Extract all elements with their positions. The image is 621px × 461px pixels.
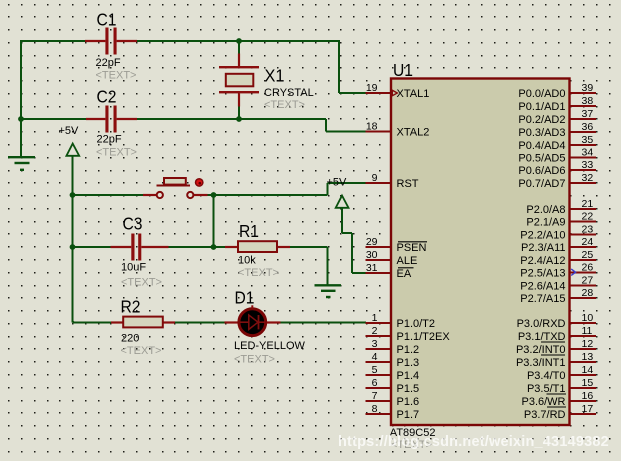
svg-text:R2: R2 (121, 297, 141, 317)
svg-text:P2.6/A14: P2.6/A14 (520, 281, 565, 293)
svg-text:ALE: ALE (397, 255, 418, 267)
svg-text:220: 220 (121, 333, 139, 345)
svg-text:25: 25 (582, 249, 594, 261)
svg-text:<TEXT>: <TEXT> (96, 70, 137, 82)
svg-text:4: 4 (372, 351, 378, 363)
svg-text:26: 26 (582, 262, 594, 274)
wire top rail C1 row left segment (20, 40, 22, 42)
svg-text:35: 35 (582, 134, 594, 146)
svg-text:P0.1/AD1: P0.1/AD1 (518, 101, 565, 113)
svg-text:P2.3/A11: P2.3/A11 (521, 242, 565, 254)
svg-text:R1: R1 (239, 221, 259, 241)
pin 28 P2.7/A15 (520, 287, 596, 305)
wire R1 to ground corner (290, 246, 328, 248)
pin 33 P0.6/AD6 (518, 159, 596, 177)
svg-text:28: 28 (582, 287, 594, 299)
pin 31 EA (366, 262, 414, 280)
svg-text:9: 9 (372, 172, 378, 184)
svg-text:21: 21 (582, 198, 594, 210)
svg-text:12: 12 (582, 338, 594, 350)
svg-text:30: 30 (366, 249, 378, 261)
wire down to XTAL1 (338, 41, 340, 93)
svg-text:P1.5: P1.5 (397, 383, 420, 395)
svg-text:3: 3 (372, 338, 378, 350)
wire ground stem top-left (20, 119, 22, 157)
pin 16 P3.6/WR (521, 390, 596, 408)
wire into RST pin (328, 182, 367, 184)
ground (under R1) (315, 285, 342, 297)
wire +5V rail vertical (72, 156, 74, 323)
pin 19 XTAL1 (366, 82, 430, 100)
svg-text:38: 38 (582, 95, 594, 107)
svg-text:22pF: 22pF (97, 134, 122, 146)
svg-text:<TEXT>: <TEXT> (121, 345, 162, 357)
LED D1 LED-YELLOW (225, 288, 306, 366)
node B junction dot (18, 116, 24, 122)
resistor R2 220 (111, 297, 175, 358)
svg-text:6: 6 (372, 377, 378, 389)
svg-text:10uF: 10uF (121, 262, 146, 274)
pin 30 ALE (366, 249, 418, 267)
svg-text:C3: C3 (123, 214, 143, 234)
svg-text:P2.5/A13: P2.5/A13 (520, 268, 565, 280)
svg-text:36: 36 (582, 121, 594, 133)
svg-text:XTAL1: XTAL1 (397, 88, 430, 100)
wire C3 to R1 node (163, 246, 226, 248)
wire into XTAL2 pin (326, 131, 366, 133)
svg-text:<TEXT>: <TEXT> (264, 99, 305, 111)
node E RST-node junction dot (211, 192, 217, 198)
+5V power symbol (EA pin) (327, 177, 367, 274)
wire crystal top stub (238, 41, 240, 54)
svg-text:14: 14 (582, 364, 594, 376)
svg-text:P3.7/RD: P3.7/RD (524, 409, 566, 421)
pin 15 P3.5/T1 (527, 377, 596, 395)
node A junction dot (236, 38, 242, 44)
svg-text:P0.6/AD6: P0.6/AD6 (518, 165, 565, 177)
svg-text:P1.4: P1.4 (397, 370, 420, 382)
svg-text:10k: 10k (238, 255, 256, 267)
svg-text:C2: C2 (97, 87, 117, 107)
pin 25 P2.4/A12 (520, 249, 596, 267)
svg-text:P3.1/TXD: P3.1/TXD (518, 331, 566, 343)
svg-text:RST: RST (397, 178, 419, 190)
svg-text:P2.7/A15: P2.7/A15 (520, 293, 565, 305)
pin 38 P0.1/AD1 (518, 95, 596, 113)
node F junction dot (70, 244, 76, 250)
wire C2 row right segment (137, 118, 326, 120)
svg-text:34: 34 (582, 147, 594, 159)
pin 39 P0.0/AD0 (518, 82, 596, 100)
svg-text:16: 16 (582, 390, 594, 402)
svg-text:U1: U1 (393, 60, 413, 80)
svg-text:<TEXT>: <TEXT> (96, 147, 137, 159)
pin 13 P3.3/INT1 (516, 351, 596, 369)
svg-text:XTAL2: XTAL2 (397, 127, 430, 139)
resistor R1 10k (225, 221, 290, 279)
svg-text:8: 8 (372, 403, 378, 415)
pin 18 XTAL2 (366, 121, 430, 139)
svg-text:P0.5/AD5: P0.5/AD5 (518, 153, 565, 165)
svg-text:29: 29 (366, 236, 378, 248)
svg-text:D1: D1 (235, 288, 255, 308)
svg-text:P3.2/INT0: P3.2/INT0 (516, 344, 566, 356)
wire C1 row right segment to crystal top and corner (137, 40, 340, 42)
pin 10 P3.0/RXD (517, 312, 596, 330)
pin 3 P1.2 (366, 338, 420, 356)
pin 24 P2.3/A11 (521, 236, 596, 254)
svg-text:32: 32 (582, 172, 594, 184)
svg-text:P1.2: P1.2 (397, 344, 420, 356)
svg-text:P3.3/INT1: P3.3/INT1 (516, 357, 566, 369)
+5V power symbol (left rail) (59, 125, 80, 156)
push button (143, 178, 208, 198)
pin 8 P1.7 (366, 403, 420, 421)
pin 11 P3.1/TXD (518, 325, 596, 343)
svg-text:P1.0/T2: P1.0/T2 (397, 318, 436, 330)
svg-text:<TEXT>: <TEXT> (234, 354, 275, 366)
svg-text:13: 13 (582, 351, 594, 363)
wire +5V rail to R2 (73, 322, 112, 324)
svg-text:P0.2/AD2: P0.2/AD2 (518, 114, 565, 126)
svg-text:P0.7/AD7: P0.7/AD7 (518, 178, 565, 190)
svg-text:33: 33 (582, 159, 594, 171)
svg-text:P1.6: P1.6 (397, 396, 420, 408)
pin 21 P2.0/A8 (526, 198, 596, 216)
pin 27 P2.6/A14 (520, 275, 596, 293)
pin 36 P0.3/AD3 (518, 121, 596, 139)
svg-text:LED-YELLOW: LED-YELLOW (234, 340, 306, 352)
pin 2 P1.1/T2EX (366, 325, 451, 343)
XTAL1 input arrow inside chip (392, 90, 397, 95)
svg-text:P3.5/T1: P3.5/T1 (527, 383, 566, 395)
node C junction dot (236, 116, 242, 122)
wire C2 row left segment (21, 118, 86, 120)
pin 22 P2.1/A9 (526, 211, 596, 229)
svg-text:P0.3/AD3: P0.3/AD3 (518, 127, 565, 139)
svg-text:37: 37 (582, 108, 594, 120)
svg-text:<TEXT>: <TEXT> (238, 267, 279, 279)
wire down to ground 2 (327, 247, 329, 285)
pin 9 RST (366, 172, 419, 190)
pin 26 P2.5/A13 (520, 262, 596, 280)
pin 32 P0.7/AD7 (518, 172, 596, 190)
svg-text:P1.1/T2EX: P1.1/T2EX (397, 331, 451, 343)
svg-text:<TEXT>: <TEXT> (121, 277, 162, 289)
svg-text:https://blog.csdn.net/weixin_4: https://blog.csdn.net/weixin_43149382 (338, 434, 609, 450)
wire RST node up (327, 183, 329, 195)
svg-text:P2.4/A12: P2.4/A12 (520, 255, 565, 267)
op-amp U1 AT89C52 chip body (390, 60, 570, 451)
svg-text:1: 1 (372, 312, 378, 324)
wire down-step to XTAL2 (325, 119, 327, 132)
svg-text:P3.4/T0: P3.4/T0 (527, 370, 566, 382)
capacitor C1 (85, 10, 137, 82)
svg-text:22pF: 22pF (96, 57, 121, 69)
svg-text:+5V: +5V (59, 125, 80, 137)
capacitor C3 (111, 214, 169, 289)
svg-text:P0.4/AD4: P0.4/AD4 (518, 140, 565, 152)
svg-text:15: 15 (582, 377, 594, 389)
svg-text:P0.0/AD0: P0.0/AD0 (518, 88, 565, 100)
svg-text:P3.6/WR: P3.6/WR (521, 396, 565, 408)
svg-text:P2.0/A8: P2.0/A8 (526, 204, 565, 216)
svg-text:C1: C1 (97, 10, 117, 30)
svg-text:EA: EA (397, 268, 412, 280)
wire left vertical (20, 41, 22, 120)
svg-text:10: 10 (582, 312, 594, 324)
svg-text:11: 11 (582, 325, 593, 337)
crystal X1 (219, 54, 314, 112)
node G junction dot (211, 244, 217, 250)
svg-text:PSEN: PSEN (397, 242, 427, 254)
svg-text:P2.1/A9: P2.1/A9 (526, 217, 565, 229)
svg-text:18: 18 (366, 121, 378, 133)
pin 1 P1.0/T2 (366, 312, 436, 330)
pin 4 P1.3 (366, 351, 420, 369)
pin 6 P1.5 (366, 377, 420, 395)
wire +5V rail to C3 (73, 246, 111, 248)
svg-text:P3.0/RXD: P3.0/RXD (517, 318, 566, 330)
wire LED to P1.0 pin (281, 322, 367, 324)
pin 7 P1.6 (366, 390, 420, 408)
capacitor C2 (86, 87, 137, 159)
svg-text:27: 27 (582, 275, 594, 287)
pin 37 P0.2/AD2 (518, 108, 596, 126)
pin 35 P0.4/AD4 (518, 134, 596, 152)
svg-text:+5V: +5V (327, 177, 348, 189)
pin 34 P0.5/AD5 (518, 147, 596, 165)
pin 29 PSEN (366, 236, 428, 254)
svg-text:P1.7: P1.7 (397, 409, 420, 421)
svg-text:2: 2 (372, 325, 378, 337)
svg-text:24: 24 (582, 236, 594, 248)
wire crystal bottom stub (238, 106, 240, 119)
svg-text:23: 23 (582, 224, 594, 236)
node D junction dot (70, 192, 76, 198)
ground (top-left) (8, 157, 35, 170)
wire +5V to button (73, 194, 144, 196)
svg-text:P2.2/A10: P2.2/A10 (520, 230, 565, 242)
pin 5 P1.4 (366, 364, 420, 382)
node P2.5 blue marker (571, 269, 575, 275)
svg-text:39: 39 (582, 82, 594, 94)
svg-text:P1.3: P1.3 (397, 357, 420, 369)
wire into XTAL1 pin (339, 92, 366, 94)
pin 17 P3.7/RD (524, 403, 596, 421)
svg-text:CRYSTAL: CRYSTAL (264, 87, 314, 99)
svg-text:5: 5 (372, 364, 378, 376)
wire RST node vertical to C3/R1 row (213, 195, 215, 247)
svg-text:17: 17 (582, 403, 594, 415)
wire button to RST node (208, 194, 328, 196)
svg-text:19: 19 (366, 82, 378, 94)
svg-text:7: 7 (372, 390, 378, 402)
svg-text:22: 22 (582, 211, 594, 223)
pin 23 P2.2/A10 (520, 224, 596, 242)
wire R2 to LED (175, 322, 225, 324)
pin 12 P3.2/INT0 (516, 338, 596, 356)
svg-text:X1: X1 (265, 66, 285, 86)
pin 14 P3.4/T0 (527, 364, 596, 382)
svg-text:31: 31 (366, 262, 378, 274)
